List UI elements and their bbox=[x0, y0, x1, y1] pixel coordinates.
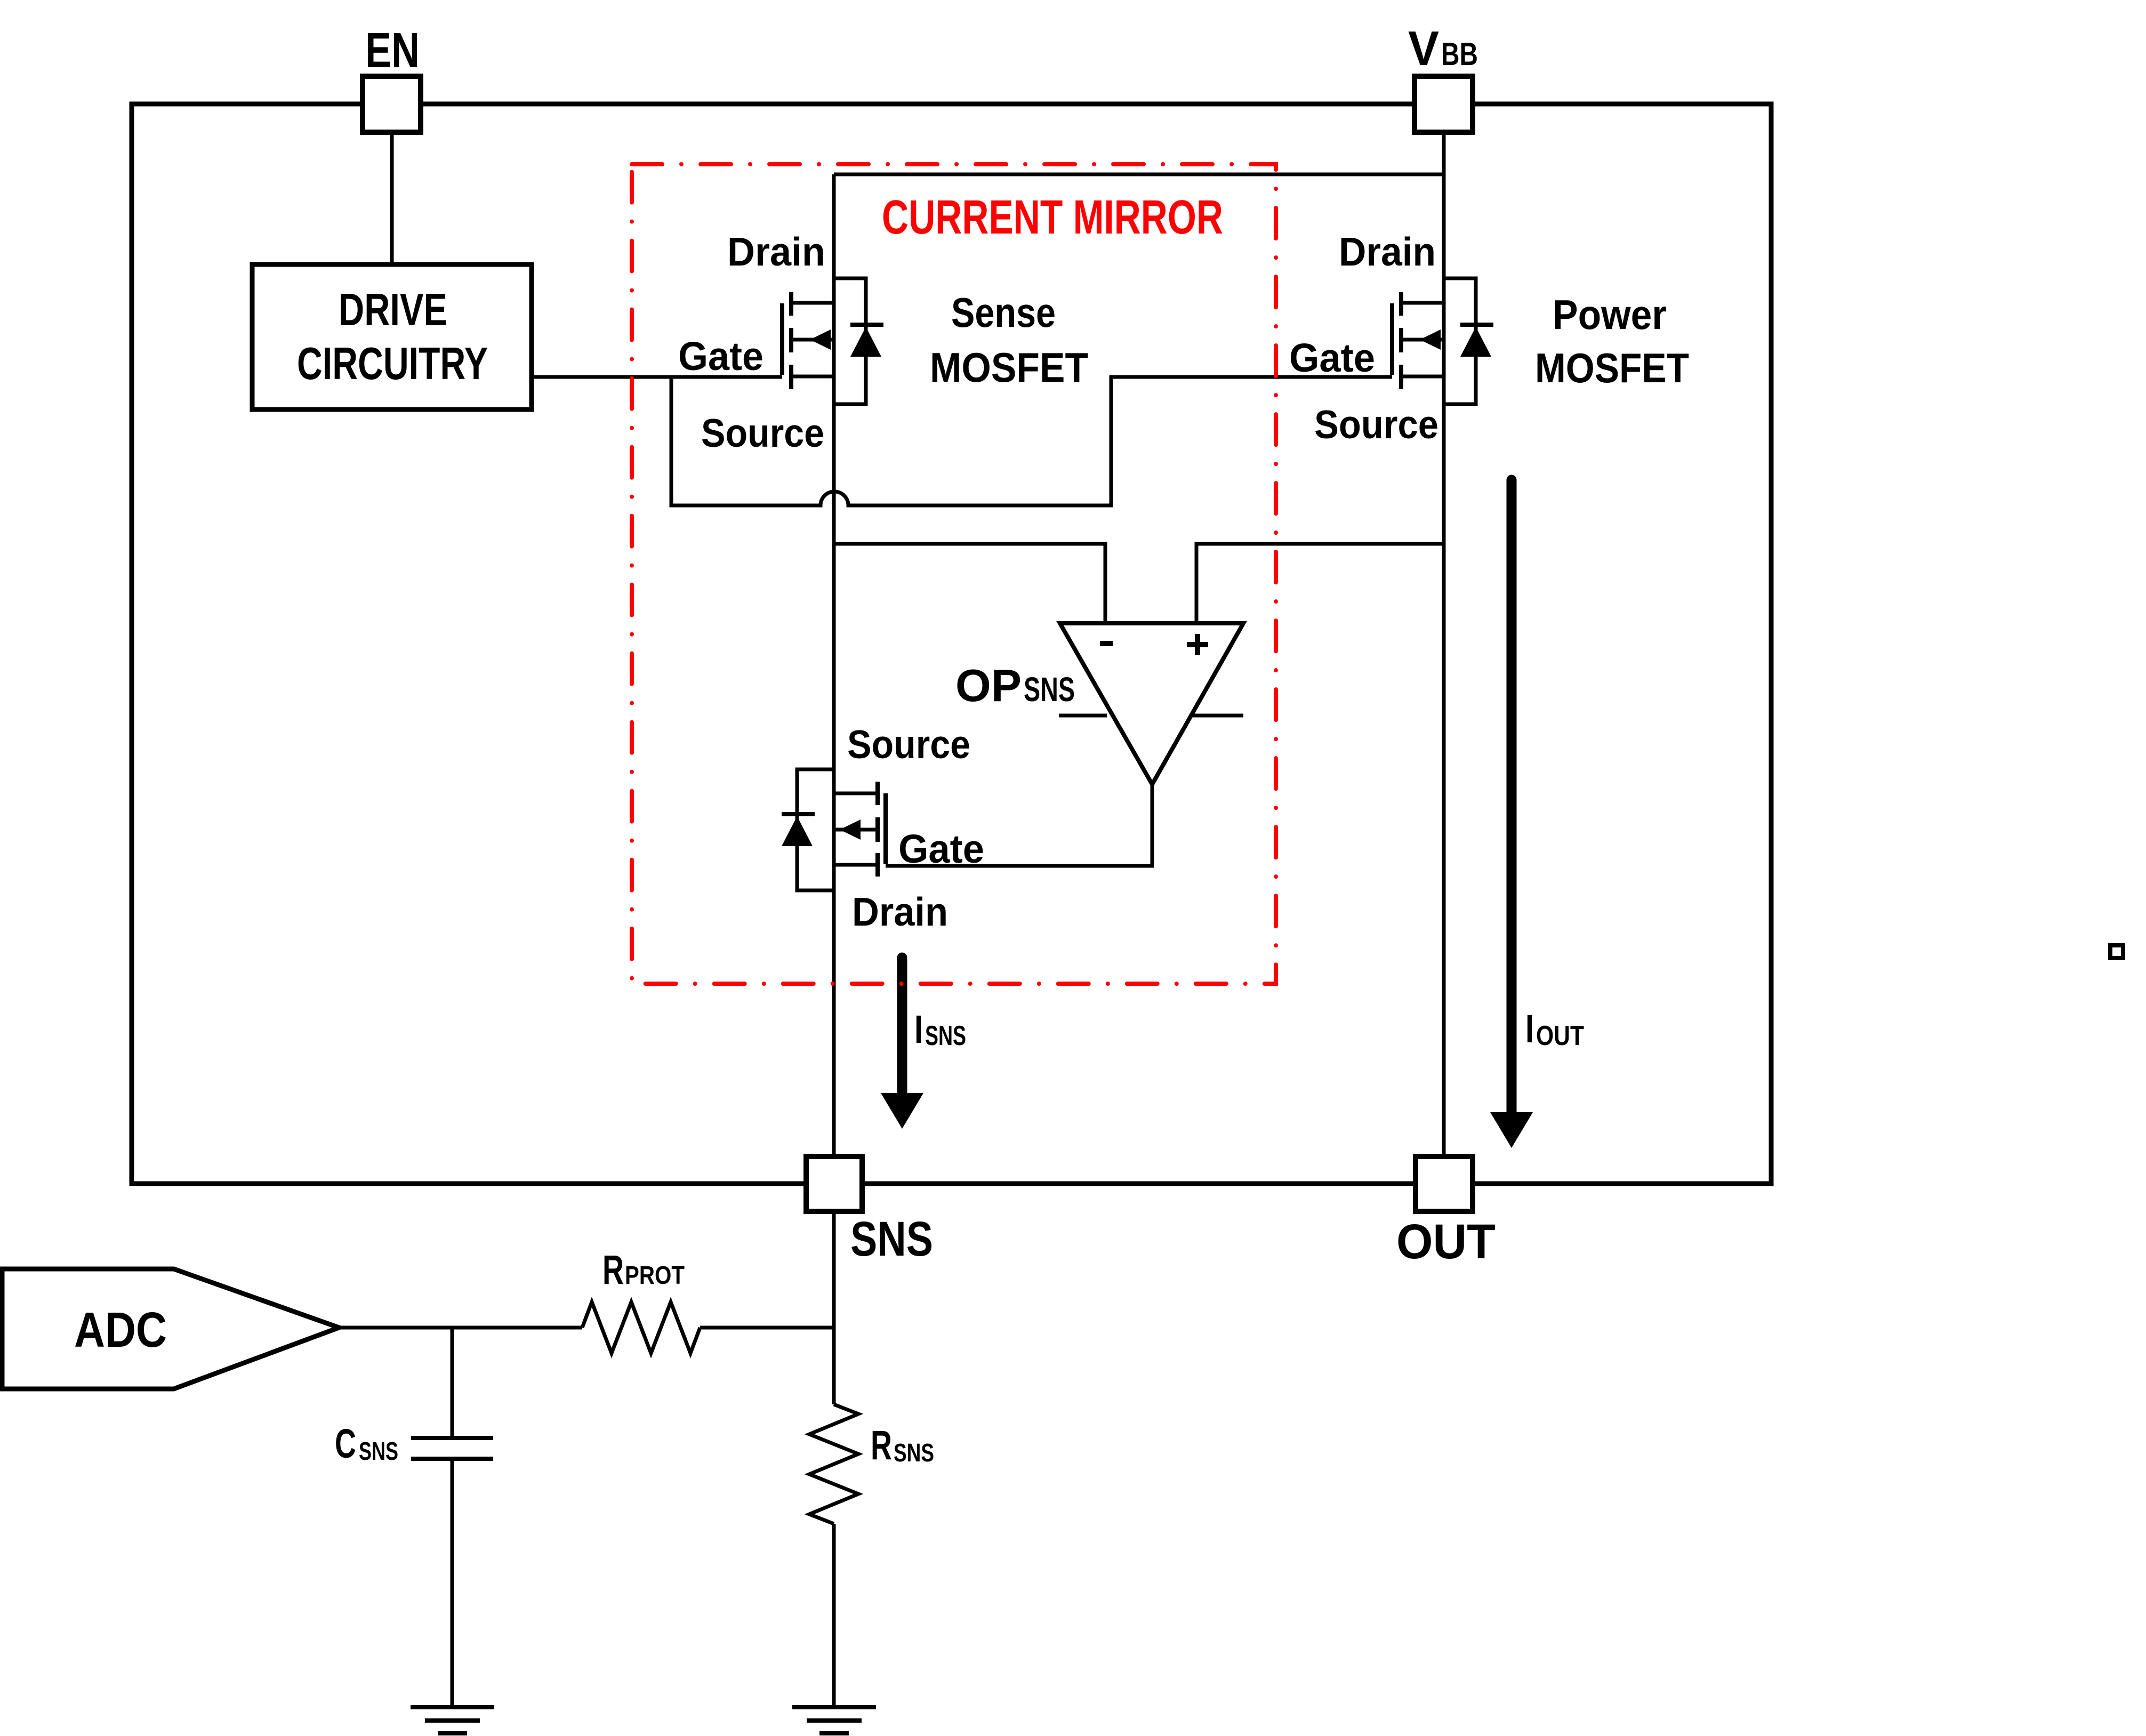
ground under CSNS bbox=[411, 1707, 494, 1733]
svg-text:Drain: Drain bbox=[1339, 229, 1436, 274]
svg-text:Gate: Gate bbox=[898, 826, 984, 871]
wire internal VBB rail to sense MOSFET drain bbox=[834, 173, 1444, 176]
svg-text:V: V bbox=[1408, 22, 1439, 76]
wire power source to op-amp non-inverting input bbox=[1196, 544, 1444, 623]
svg-text:OP: OP bbox=[955, 661, 1022, 711]
svg-text:CIRCUITRY: CIRCUITRY bbox=[297, 339, 488, 389]
svg-text:DRIVE: DRIVE bbox=[339, 285, 447, 335]
svg-text:CURRENT MIRROR: CURRENT MIRROR bbox=[882, 191, 1223, 244]
op-amp OPSNS bbox=[1059, 623, 1243, 784]
svg-text:PROT: PROT bbox=[625, 1261, 685, 1290]
svg-text:MOSFET: MOSFET bbox=[1535, 344, 1689, 391]
svg-text:EN: EN bbox=[365, 22, 420, 78]
wire EN to drive circuitry bbox=[390, 132, 394, 264]
wire SNS pin down through RSNS bbox=[832, 1211, 836, 1707]
svg-text:Source: Source bbox=[701, 411, 824, 455]
svg-text:Source: Source bbox=[847, 722, 970, 767]
IOUT current arrow bbox=[1490, 480, 1533, 1148]
svg-text:Source: Source bbox=[1314, 402, 1438, 447]
wire sense source to op-amp inverting input bbox=[834, 544, 1105, 623]
EN pin bbox=[363, 76, 421, 132]
ground under RSNS bbox=[792, 1707, 876, 1733]
wire VBB pin down to power MOSFET drain bbox=[1442, 132, 1446, 303]
OUT pin bbox=[1416, 1156, 1473, 1211]
svg-text:Sense: Sense bbox=[951, 289, 1056, 336]
wire power MOSFET vertical drain-source line down to OUT pin bbox=[1442, 303, 1446, 1156]
svg-text:SNS: SNS bbox=[894, 1439, 934, 1467]
resistor RPROT bbox=[582, 1302, 700, 1353]
svg-text:R: R bbox=[602, 1247, 624, 1293]
svg-text:R: R bbox=[871, 1422, 892, 1468]
body diode of sense MOSFET bbox=[834, 278, 883, 404]
resistor RSNS bbox=[809, 1404, 858, 1524]
svg-text:SNS: SNS bbox=[850, 1212, 933, 1266]
svg-text:I: I bbox=[914, 1007, 923, 1051]
svg-text:SNS: SNS bbox=[1024, 670, 1075, 709]
svg-text:Gate: Gate bbox=[1289, 335, 1375, 380]
wire CSNS branch bbox=[451, 1328, 454, 1707]
svg-text:Drain: Drain bbox=[852, 889, 948, 934]
wire op-amp output to mirror MOSFET gate bbox=[886, 784, 1152, 866]
capacitor CSNS bbox=[411, 1438, 493, 1459]
SNS pin bbox=[806, 1156, 862, 1211]
svg-text:ADC: ADC bbox=[74, 1302, 167, 1357]
ISNS current arrow bbox=[881, 958, 923, 1129]
wire gate from drive circuitry to sense MOSFET gate bbox=[532, 375, 782, 379]
svg-text:Power: Power bbox=[1553, 291, 1667, 338]
svg-text:C: C bbox=[335, 1421, 356, 1467]
outer device box bbox=[132, 104, 1771, 1184]
wire ADC to SNS node bbox=[339, 1326, 834, 1330]
svg-text:SNS: SNS bbox=[359, 1437, 398, 1466]
svg-text:Drain: Drain bbox=[727, 229, 825, 274]
svg-text:I: I bbox=[1525, 1007, 1534, 1051]
wire gate jog to power MOSFET gate with hop over sense source bbox=[671, 377, 1392, 505]
stray artifact square bbox=[2110, 945, 2123, 958]
mirror MOSFET Q3 bbox=[834, 782, 886, 877]
wire sense MOSFET vertical drain-source line down to SNS pin bbox=[832, 174, 836, 1156]
svg-text:MOSFET: MOSFET bbox=[930, 344, 1088, 391]
sense MOSFET Q1 bbox=[782, 292, 834, 389]
svg-text:OUT: OUT bbox=[1396, 1215, 1496, 1269]
svg-text:OUT: OUT bbox=[1536, 1020, 1584, 1051]
power MOSFET Q2 bbox=[1392, 292, 1444, 389]
svg-text:Gate: Gate bbox=[678, 334, 763, 379]
svg-text:BB: BB bbox=[1441, 36, 1478, 72]
body diode of mirror MOSFET bbox=[782, 769, 834, 890]
current mirror boundary box bbox=[632, 164, 1276, 984]
ADC block bbox=[2, 1269, 339, 1389]
drive circuitry block bbox=[252, 264, 532, 409]
svg-text:SNS: SNS bbox=[925, 1020, 966, 1051]
body diode of power MOSFET bbox=[1444, 278, 1493, 404]
VBB pin bbox=[1414, 76, 1473, 132]
